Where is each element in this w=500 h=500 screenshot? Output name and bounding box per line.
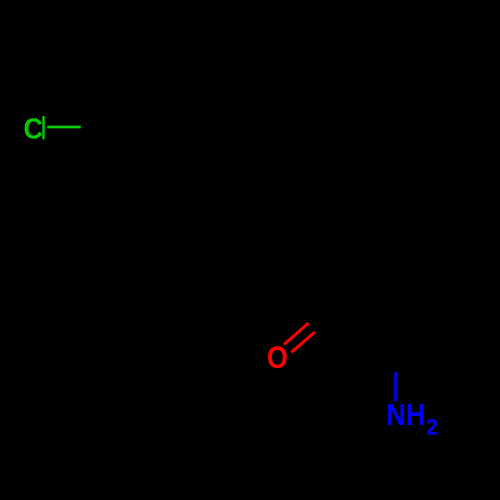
atom O (carbonyl oxygen label) — [267, 340, 288, 375]
svg-text:C: C — [24, 113, 43, 145]
svg-text:H: H — [406, 399, 426, 433]
bond Cl-C (green half of C-Cl single bond) — [47, 126, 81, 129]
atom Cl (chlorine label, letter C) — [24, 113, 43, 145]
atom Cl (chlorine label, letter l drawn as bar) — [42, 116, 44, 139]
atom NH2 (amine label, letter N) — [386, 399, 406, 433]
atom NH2 (amine label, letter H) — [406, 399, 426, 433]
double bond C=O lower red segment — [291, 332, 314, 352]
svg-text:2: 2 — [426, 415, 438, 440]
atom NH2 (amine label, subscript 2) — [426, 415, 438, 440]
bond N-C (blue half of C-N single bond) — [394, 372, 397, 401]
double bond C=O upper red segment — [284, 323, 309, 345]
svg-text:O: O — [267, 340, 288, 375]
svg-text:N: N — [386, 399, 406, 433]
